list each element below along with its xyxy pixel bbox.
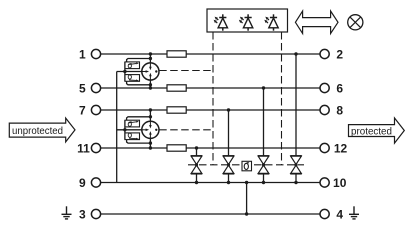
resistor row 11 <box>167 145 186 151</box>
junction row9 x228 <box>227 181 230 184</box>
junction GDT1 row1 <box>149 52 152 55</box>
ground left <box>62 206 72 219</box>
LED 3 <box>264 14 278 30</box>
protected arrow label <box>349 118 405 143</box>
terminal 11 <box>77 141 100 155</box>
svg-text:5: 5 <box>79 81 86 95</box>
indicator box <box>207 9 288 32</box>
wire GDT2 bottom lead <box>149 138 151 148</box>
wire row 11-12 <box>101 147 320 149</box>
wire row 5-6 <box>101 87 320 89</box>
dashed monitor line GDT2 <box>159 129 213 131</box>
terminal 8 <box>320 103 343 117</box>
svg-text:6: 6 <box>336 81 343 95</box>
dashed monitor line vertical left <box>212 32 214 165</box>
wire GDT2 top bracket <box>127 117 151 120</box>
wire row 7-8 <box>101 109 320 111</box>
svg-text:7: 7 <box>79 103 86 117</box>
wire GDT1 top bracket <box>127 59 151 62</box>
wire row 9-10 <box>101 182 320 184</box>
junction GDT2 row7 <box>149 108 152 111</box>
LED 1 <box>214 14 228 30</box>
wire GDT1 bottom bracket <box>127 81 151 85</box>
gas discharge tube G1 <box>142 63 159 80</box>
svg-text:2: 2 <box>336 47 343 61</box>
terminal 4 <box>320 207 343 221</box>
dashed monitor line GDT1 <box>159 70 213 72</box>
thermal sensor on TVS row <box>242 161 252 171</box>
thermal disconnect GDT2 lower <box>125 133 140 140</box>
wire row 1-2 <box>101 53 320 55</box>
unprotected arrow label <box>9 118 75 142</box>
wire GDT common tap to row 9-10 <box>116 72 118 183</box>
thermal disconnect GDT2 upper <box>125 120 140 127</box>
TVS diode D3 <box>258 156 270 183</box>
junction GDT2 row11 <box>149 146 152 149</box>
thermal disconnect GDT1 lower <box>125 75 140 82</box>
thermal disconnect GDT1 upper <box>125 62 140 69</box>
svg-text:4: 4 <box>336 207 343 221</box>
wire drop row7 to TVS2 <box>228 110 230 156</box>
terminal 7 <box>79 103 101 117</box>
wire drop row1 to TVS4 <box>295 54 297 156</box>
terminal 3 <box>79 207 101 221</box>
TVS diode D1 <box>191 156 203 183</box>
wire GDT1 bottom lead <box>149 80 151 88</box>
junction row1 x296 <box>294 52 297 55</box>
terminal 2 <box>320 47 343 61</box>
wire drop row5 to TVS3 <box>263 88 265 156</box>
junction GDT1 bracket bottom <box>149 83 152 86</box>
dashed monitor line vertical right <box>281 32 283 165</box>
junction GDT1 tap <box>123 70 126 73</box>
terminal 1 <box>79 47 101 61</box>
junction GDT2 bracket top <box>149 115 152 118</box>
junction row9 x296 <box>294 181 297 184</box>
wire row9 to row3 <box>246 183 248 215</box>
TVS diode D2 <box>223 156 235 183</box>
svg-text:11: 11 <box>77 141 90 155</box>
junction GDT1 bracket top <box>149 57 152 60</box>
terminal 12 <box>320 141 347 155</box>
svg-text:9: 9 <box>79 176 86 190</box>
TVS diode D4 <box>290 156 302 183</box>
resistor row 7 <box>167 107 186 113</box>
svg-text:12: 12 <box>334 141 348 155</box>
dashed monitor line TVS row <box>188 164 304 166</box>
wire drop row11 to TVS1 <box>196 148 198 156</box>
wire GDT1 left link <box>124 62 126 81</box>
junction GDT2 bracket bottom <box>149 141 152 144</box>
gas discharge tube G2 <box>142 121 159 138</box>
lamp symbol <box>348 15 363 30</box>
svg-text:1: 1 <box>79 47 86 61</box>
junction row5 x263 <box>262 86 265 89</box>
wire GDT2 top lead <box>149 110 151 121</box>
remote signal double arrow <box>295 11 338 34</box>
junction row11 x196 <box>195 146 198 149</box>
svg-text:8: 8 <box>336 103 343 117</box>
svg-text:protected: protected <box>351 126 392 137</box>
terminal 5 <box>79 81 101 95</box>
terminal 9 <box>79 176 101 190</box>
wire row 3-4 <box>101 213 320 215</box>
resistor row 1 <box>167 51 186 57</box>
wire GDT2 center tap <box>117 129 142 131</box>
junction row3 x246 <box>245 212 248 215</box>
junction row9 x246 <box>245 181 248 184</box>
svg-text:10: 10 <box>333 176 347 190</box>
wire GDT2 left link <box>124 120 126 139</box>
svg-text:3: 3 <box>79 207 86 221</box>
junction row9 x196 <box>195 181 198 184</box>
junction GDT2 tap <box>123 128 126 131</box>
LED 2 <box>239 14 253 30</box>
junction GDT1 row5 <box>149 86 152 89</box>
wire GDT2 bottom bracket <box>127 140 151 144</box>
junction row7 x228 <box>227 108 230 111</box>
junction row9 x263 <box>262 181 265 184</box>
ground right <box>349 206 359 219</box>
wire GDT1 top lead <box>149 54 151 63</box>
wire GDT1 center tap <box>117 71 142 73</box>
resistor row 5 <box>167 85 186 91</box>
terminal 10 <box>320 176 347 190</box>
svg-text:unprotected: unprotected <box>12 126 63 137</box>
terminal 6 <box>320 81 343 95</box>
